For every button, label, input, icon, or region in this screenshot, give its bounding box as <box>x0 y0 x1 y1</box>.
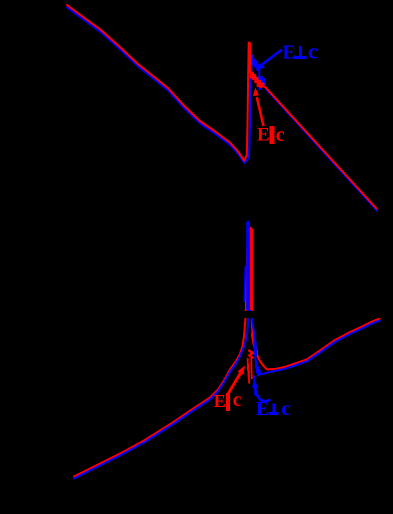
bottom red arrowhead <box>237 366 245 376</box>
top curve E perp c (blue) <box>67 7 377 210</box>
top blue arrow shaft <box>263 50 283 65</box>
svg-text:c: c <box>276 124 285 146</box>
bottom red spike bar <box>250 229 253 311</box>
bottom blue arrow shaft <box>255 388 271 402</box>
top curve E par c (red) <box>67 5 377 209</box>
top label E perp c (blue) <box>283 39 319 64</box>
svg-text:E: E <box>256 399 269 420</box>
top red arrowhead <box>253 88 259 97</box>
top blue arrowhead <box>257 63 265 71</box>
panel frame gap (black separator between panels) <box>66 311 380 318</box>
svg-text:c: c <box>233 390 242 411</box>
bottom curve E perp c (blue) <box>74 222 380 479</box>
svg-text:c: c <box>281 396 290 420</box>
bottom blue left ascent sliver <box>244 266 245 302</box>
top label E par c (red) <box>257 124 285 146</box>
top red arrow shaft <box>257 97 264 126</box>
bottom label E par c (red) <box>214 390 242 411</box>
bottom blue descender wiggle <box>254 376 255 396</box>
bottom red arrow shaft <box>227 373 241 396</box>
svg-text:c: c <box>308 39 318 64</box>
bottom blue flare thickening <box>254 342 258 355</box>
svg-text:E: E <box>257 125 270 146</box>
bottom blue arrowhead <box>252 381 259 388</box>
bottom red flare thickening <box>252 334 256 352</box>
bottom blue spike bar <box>246 222 250 310</box>
bottom red descender wiggle <box>248 358 249 384</box>
bottom label E perp c (blue) <box>256 396 291 420</box>
bottom red post-peak wiggle <box>248 350 253 358</box>
svg-text:E: E <box>283 42 296 64</box>
svg-text:E: E <box>214 391 226 411</box>
bottom curve E par c (red) <box>74 228 380 477</box>
bottom red second descender <box>250 358 253 379</box>
